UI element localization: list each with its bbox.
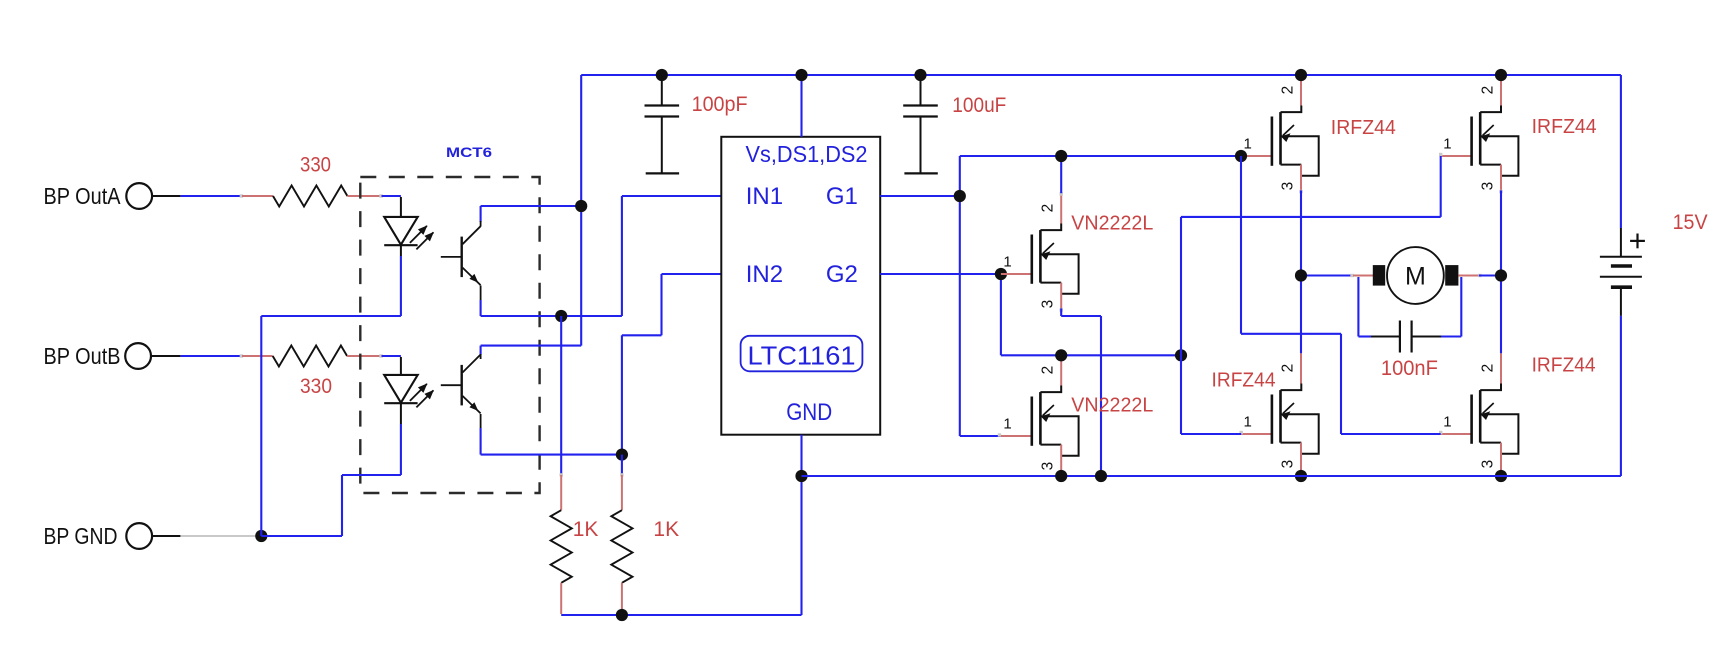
wire emitter1 to R 1K <box>560 316 563 477</box>
node Q6 source rail junction <box>1495 470 1507 482</box>
transistor Q5 IRFZ44 (bottom-left) <box>1212 353 1319 470</box>
LED D1 (opto) <box>384 217 434 256</box>
op-amp/driver U1 LTC1161 box <box>721 137 880 435</box>
wire D1 cathode to BP GND <box>261 256 401 536</box>
wire T1 collector to Vs <box>481 206 582 227</box>
svg-text:VN2222L: VN2222L <box>1071 213 1153 235</box>
resistor 330 (top) <box>273 154 383 207</box>
LED D2 (opto) <box>384 375 434 424</box>
svg-text:1K: 1K <box>573 518 599 541</box>
node collector junction <box>575 200 587 212</box>
transistor Q2 VN2222L (lower) <box>1001 355 1153 470</box>
svg-text:3: 3 <box>1280 182 1297 191</box>
node emitter2 junction <box>616 449 628 461</box>
wire 1K2 top <box>620 455 623 477</box>
transistor Q3 IRFZ44 (top-left) <box>1241 75 1396 193</box>
wire T2 collector to Vs vertical <box>481 75 582 359</box>
svg-text:1K: 1K <box>653 518 679 541</box>
resistor 330 (bottom) <box>273 346 383 399</box>
svg-text:1: 1 <box>1003 416 1011 433</box>
node emitter1 junction <box>555 310 567 322</box>
wire Vs pin <box>800 75 802 137</box>
wire Q4 gate net <box>1181 156 1441 434</box>
resistor 1K (left) <box>551 475 599 614</box>
wire GND pin <box>800 435 802 476</box>
node G2 net T junction <box>1175 349 1187 361</box>
wire Q5 drain from motor left <box>1300 276 1302 354</box>
wire Q3 source to motor left <box>1300 190 1302 275</box>
terminal BP OutB <box>44 343 152 369</box>
capacitor 100pF <box>645 75 748 173</box>
wire Vs top rail <box>581 74 1621 76</box>
node Vs pin rail junction <box>795 69 807 81</box>
svg-text:IRFZ44: IRFZ44 <box>1212 370 1276 392</box>
svg-text:VN2222L: VN2222L <box>1071 395 1153 417</box>
transistor Q6 IRFZ44 (bottom-right) <box>1439 353 1596 470</box>
capacitor 100uF <box>903 75 1006 173</box>
node G1 junction <box>954 190 966 202</box>
node BP GND junction <box>255 530 267 542</box>
wire Q5 gate from T junction <box>1181 433 1241 435</box>
wire resistor to LED D1 anode <box>382 196 401 217</box>
svg-text:IRFZ44: IRFZ44 <box>1532 355 1596 377</box>
svg-text:1: 1 <box>1244 414 1252 431</box>
svg-text:2: 2 <box>1280 364 1297 373</box>
node Q3 gate junction <box>1235 150 1247 162</box>
wire bottom GND rail <box>802 475 1621 477</box>
svg-text:2: 2 <box>1479 86 1496 95</box>
node G2/VN1 gate junction <box>995 268 1007 280</box>
wire IN2 staircase <box>622 274 721 455</box>
phototransistor T1 <box>441 226 481 285</box>
svg-text:MCT6: MCT6 <box>446 145 493 160</box>
svg-text:2: 2 <box>1039 204 1056 213</box>
svg-text:100nF: 100nF <box>1381 357 1438 380</box>
svg-text:BP OutB: BP OutB <box>44 343 121 369</box>
wire T1 emitter to IN1 <box>481 196 722 316</box>
svg-text:2: 2 <box>1479 364 1496 373</box>
node Q3 drain rail junction <box>1295 69 1307 81</box>
wire Q1 drain to G1 net <box>1060 156 1062 193</box>
svg-text:LTC1161: LTC1161 <box>748 341 856 371</box>
svg-text:1: 1 <box>1443 414 1451 431</box>
svg-text:100pF: 100pF <box>692 93 748 116</box>
terminal BP GND <box>44 523 153 549</box>
svg-text:15V: 15V <box>1673 211 1708 234</box>
svg-text:2: 2 <box>1280 86 1297 95</box>
wire Q1 source down <box>1061 308 1101 476</box>
svg-text:G1: G1 <box>826 183 858 210</box>
node motor left junction <box>1295 269 1307 281</box>
svg-text:330: 330 <box>300 375 332 398</box>
node Q1 source rail junction <box>1095 470 1107 482</box>
capacitor 100nF <box>1358 277 1461 380</box>
terminal BP OutA <box>44 183 153 209</box>
svg-text:M: M <box>1405 263 1426 291</box>
svg-text:3: 3 <box>1039 300 1056 309</box>
optocoupler MCT6 dashed box <box>360 145 539 493</box>
node Q1 drain junction <box>1055 150 1067 162</box>
node 100uF rail junction <box>914 69 926 81</box>
svg-text:G2: G2 <box>826 261 858 288</box>
svg-text:Vs,DS1,DS2: Vs,DS1,DS2 <box>746 141 868 167</box>
wire Q2 source to rail <box>1060 470 1062 476</box>
svg-text:IN1: IN1 <box>746 183 783 210</box>
svg-text:IRFZ44: IRFZ44 <box>1532 116 1597 138</box>
wire D2 cathode to BP GND <box>261 424 401 536</box>
motor M1 <box>1301 247 1501 304</box>
svg-text:3: 3 <box>1039 462 1056 471</box>
node 1K bottoms junction <box>616 609 628 621</box>
svg-text:1: 1 <box>1443 136 1451 153</box>
transistor Q4 IRFZ44 (top-right) <box>1439 75 1597 193</box>
svg-text:3: 3 <box>1479 182 1496 191</box>
resistor 1K (right) <box>611 475 679 614</box>
svg-text:1: 1 <box>1003 254 1011 271</box>
phototransistor T2 <box>441 355 481 414</box>
node Q5 source rail junction <box>1295 470 1307 482</box>
node Q4 drain rail junction <box>1495 69 1507 81</box>
svg-text:IN2: IN2 <box>746 261 783 288</box>
svg-text:1: 1 <box>1244 136 1252 153</box>
wire BP GND (gray) <box>152 535 261 537</box>
wire G1 net <box>880 156 1241 437</box>
node GND junction <box>795 470 807 482</box>
svg-text:100uF: 100uF <box>952 94 1006 117</box>
wire Q6 drain from motor right <box>1500 276 1502 354</box>
svg-text:2: 2 <box>1039 366 1056 375</box>
battery 15V <box>1600 75 1708 476</box>
wire BP OutB to resistor <box>151 354 273 357</box>
node 100pF rail junction <box>656 69 668 81</box>
svg-text:3: 3 <box>1280 460 1297 469</box>
wire resistor to LED D2 anode <box>382 356 401 375</box>
wire resistor bottoms to GND <box>561 476 801 615</box>
svg-text:3: 3 <box>1479 460 1496 469</box>
svg-text:IRFZ44: IRFZ44 <box>1331 117 1396 139</box>
node motor right junction <box>1495 269 1507 281</box>
svg-text:BP OutA: BP OutA <box>44 183 122 209</box>
wire BP OutA to resistor <box>152 194 273 197</box>
node Q2 source rail junction <box>1055 470 1067 482</box>
wire Q4 source to motor right <box>1500 190 1502 275</box>
svg-text:BP GND: BP GND <box>44 523 118 549</box>
wire T2 emitter <box>481 414 622 455</box>
svg-text:GND: GND <box>786 399 832 426</box>
wire G2 net <box>880 274 1181 355</box>
transistor Q1 VN2222L (upper) <box>1001 192 1153 311</box>
node Q2 drain junction <box>1055 349 1067 361</box>
svg-text:330: 330 <box>300 154 331 177</box>
wire Q6 gate staircase from Q3 gate <box>1241 156 1441 434</box>
